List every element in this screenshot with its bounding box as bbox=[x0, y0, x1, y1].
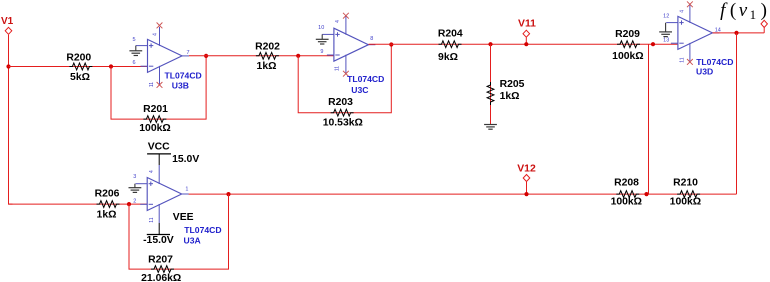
svg-text:6: 6 bbox=[132, 60, 135, 66]
svg-text:R205: R205 bbox=[500, 79, 525, 90]
U3C ground on noninverting input bbox=[316, 34, 329, 44]
wire U3D output feedback down bbox=[736, 33, 738, 194]
wire U3C feedback loop bbox=[298, 45, 391, 113]
VCC value 15.0V bbox=[172, 154, 199, 165]
junction R206/R207 feedback tap bbox=[127, 202, 131, 206]
svg-text:R201: R201 bbox=[143, 104, 168, 115]
wire lower rail from U3A output bbox=[189, 193, 737, 195]
node V11 name bbox=[518, 18, 536, 29]
svg-text:1: 1 bbox=[185, 186, 188, 192]
wire U3C output to U3D inverting input bbox=[369, 43, 678, 45]
node V1 connector diamond bbox=[5, 27, 12, 34]
svg-text:15.0V: 15.0V bbox=[172, 154, 199, 165]
op-amp U3D bbox=[666, 4, 719, 62]
wire V12 stub bbox=[526, 182, 528, 194]
junction U3C output bbox=[389, 42, 393, 46]
U3C pin 10 label bbox=[318, 25, 324, 31]
U3B pin 7 label bbox=[187, 50, 190, 56]
U3B pin 4 label bbox=[153, 33, 159, 36]
U3A pin 1 label bbox=[185, 186, 188, 192]
U3A ref label bbox=[184, 236, 201, 246]
R204 value 9k bbox=[438, 52, 458, 63]
wire up to output connector bbox=[763, 27, 765, 33]
U3B device label TL074CD bbox=[165, 71, 202, 81]
svg-text:TL074CD: TL074CD bbox=[165, 71, 202, 81]
svg-text:4: 4 bbox=[149, 170, 155, 173]
svg-text:U3D: U3D bbox=[696, 66, 713, 76]
R201 value 100k bbox=[139, 123, 170, 134]
U3C pin 11 label bbox=[334, 66, 340, 71]
svg-text:TL074CD: TL074CD bbox=[184, 225, 221, 235]
svg-text:R209: R209 bbox=[615, 29, 640, 40]
svg-text:10.53kΩ: 10.53kΩ bbox=[323, 117, 363, 128]
svg-text:R207: R207 bbox=[148, 255, 173, 266]
U3C device label TL074CD bbox=[347, 74, 384, 84]
R203 label bbox=[328, 97, 353, 108]
R207 label bbox=[148, 255, 173, 266]
U3D pin 12 label bbox=[663, 14, 669, 20]
svg-text:R210: R210 bbox=[673, 178, 698, 189]
U3D top power pin no-connect X bbox=[687, 1, 693, 7]
svg-text:R202: R202 bbox=[255, 42, 280, 53]
junction U3B output bbox=[204, 54, 208, 58]
U3C pin 8 label bbox=[370, 36, 373, 42]
svg-text:100kΩ: 100kΩ bbox=[611, 197, 642, 208]
R204 label bbox=[438, 29, 463, 40]
svg-text:100kΩ: 100kΩ bbox=[670, 197, 701, 208]
wire R205 vertical bbox=[490, 44, 492, 124]
junction V12 bbox=[524, 192, 528, 196]
resistor R200 bbox=[69, 63, 92, 70]
R200 value 5k bbox=[70, 72, 90, 83]
R202 value 1k bbox=[257, 61, 277, 72]
svg-text:13: 13 bbox=[663, 38, 669, 44]
wire U3D output bbox=[713, 32, 765, 34]
R201 label bbox=[143, 104, 168, 115]
node V11 connector diamond bbox=[523, 30, 530, 37]
svg-text:4: 4 bbox=[680, 10, 686, 13]
U3A pin 3 label bbox=[133, 174, 136, 180]
svg-text:10: 10 bbox=[318, 25, 324, 31]
resistor R208 bbox=[616, 191, 639, 198]
svg-text:9: 9 bbox=[320, 49, 323, 55]
svg-text:U3B: U3B bbox=[172, 81, 189, 91]
power VCC bar bbox=[147, 153, 171, 155]
svg-text:R200: R200 bbox=[66, 53, 91, 64]
R200 label bbox=[66, 53, 91, 64]
svg-text:100kΩ: 100kΩ bbox=[139, 123, 170, 134]
wire V1 rail to U3A inverting input bbox=[9, 203, 148, 205]
U3B pin 11 label bbox=[149, 82, 155, 87]
R203 value 10.53k bbox=[323, 117, 363, 128]
resistor R209 bbox=[617, 41, 640, 48]
U3B bottom power pin no-connect X bbox=[157, 82, 163, 88]
svg-text:100kΩ: 100kΩ bbox=[612, 51, 643, 62]
U3B ref label bbox=[172, 81, 189, 91]
svg-text:V1: V1 bbox=[1, 16, 14, 27]
svg-text:3: 3 bbox=[133, 174, 136, 180]
svg-text:1kΩ: 1kΩ bbox=[500, 91, 520, 102]
svg-text:R203: R203 bbox=[328, 97, 353, 108]
VEE label bbox=[173, 212, 194, 223]
svg-text:11: 11 bbox=[334, 66, 340, 71]
U3C pin 4 label bbox=[335, 20, 341, 23]
svg-text:4: 4 bbox=[153, 33, 159, 36]
U3A pin 2 label bbox=[133, 199, 136, 205]
U3D pin 4 label bbox=[680, 10, 686, 13]
U3C pin 9 label bbox=[320, 49, 323, 55]
R209 value 100k bbox=[612, 51, 643, 62]
R210 value 100k bbox=[670, 197, 701, 208]
svg-text:5: 5 bbox=[132, 37, 135, 43]
VCC label bbox=[148, 142, 170, 153]
svg-text:12: 12 bbox=[663, 14, 669, 20]
junction V11 bbox=[524, 42, 528, 46]
node f(v1) label bbox=[720, 0, 767, 22]
node f(v1) connector diamond bbox=[761, 20, 767, 27]
svg-text:U3C: U3C bbox=[351, 85, 368, 95]
junction U3A output/R207 bbox=[226, 192, 230, 196]
junction R204/R205 bbox=[488, 42, 492, 46]
svg-text:V12: V12 bbox=[517, 164, 536, 175]
U3D pin 14 label bbox=[715, 28, 721, 34]
U3D ref label bbox=[696, 66, 713, 76]
wire U3A feedback loop bbox=[129, 194, 229, 269]
junction R209/U3D input bbox=[651, 42, 655, 46]
wire V1 vertical bbox=[9, 35, 13, 204]
wire feedback down to R208/R210 junction bbox=[648, 44, 650, 194]
U3A pin 11 label bbox=[149, 217, 155, 222]
R205 label bbox=[500, 79, 525, 90]
junction V1/R200 bbox=[6, 64, 10, 68]
svg-text:5kΩ: 5kΩ bbox=[70, 72, 90, 83]
svg-text:VEE: VEE bbox=[173, 212, 194, 223]
U3A ground on noninverting input bbox=[129, 184, 142, 193]
svg-text:4: 4 bbox=[335, 20, 341, 23]
svg-text:11: 11 bbox=[149, 82, 155, 87]
R207 value 21.06k bbox=[141, 273, 181, 282]
svg-text:21.06kΩ: 21.06kΩ bbox=[141, 273, 181, 282]
svg-text:8: 8 bbox=[370, 36, 373, 42]
wire U3B feedback loop bbox=[111, 56, 206, 119]
resistor R206 bbox=[97, 201, 120, 208]
U3B top power pin no-connect X bbox=[157, 23, 163, 29]
R206 label bbox=[95, 189, 120, 200]
resistor R202 bbox=[256, 52, 279, 59]
wire VEE to U3A power pin bbox=[158, 223, 160, 235]
svg-text:11: 11 bbox=[679, 57, 685, 62]
R209 label bbox=[615, 29, 640, 40]
svg-text:1kΩ: 1kΩ bbox=[97, 210, 117, 221]
U3D device label TL074CD bbox=[696, 57, 733, 67]
op-amp U3C bbox=[322, 16, 375, 74]
junction R208/R210 bbox=[644, 192, 648, 196]
U3A pin 4 label bbox=[149, 170, 155, 173]
U3B pin 5 label bbox=[132, 37, 135, 43]
R210 label bbox=[673, 178, 698, 189]
resistor R205 bbox=[487, 82, 494, 105]
VEE value -15.0V bbox=[143, 235, 174, 246]
op-amp U3A bbox=[136, 165, 189, 223]
svg-text:R204: R204 bbox=[438, 29, 463, 40]
junction U3D output bbox=[734, 31, 738, 35]
wire V1 to U3B inverting input bbox=[9, 66, 148, 68]
U3D pin 11 label bbox=[679, 57, 685, 62]
resistor R207 bbox=[151, 266, 174, 273]
U3C ref label bbox=[351, 85, 368, 95]
svg-text:-15.0V: -15.0V bbox=[143, 235, 174, 246]
svg-text:V11: V11 bbox=[518, 18, 536, 29]
svg-text:R206: R206 bbox=[95, 189, 120, 200]
resistor R201 bbox=[143, 116, 166, 123]
R206 value 1k bbox=[97, 210, 117, 221]
R208 value 100k bbox=[611, 197, 642, 208]
svg-text:TL074CD: TL074CD bbox=[347, 74, 384, 84]
U3C top power pin no-connect X bbox=[343, 13, 349, 19]
junction R202/U3C feedback tap bbox=[296, 54, 300, 58]
R202 label bbox=[255, 42, 280, 53]
resistor R203 bbox=[331, 109, 354, 116]
svg-text:9kΩ: 9kΩ bbox=[438, 52, 458, 63]
svg-text:R208: R208 bbox=[614, 178, 639, 189]
resistor R204 bbox=[439, 41, 462, 48]
U3B pin 6 label bbox=[132, 60, 135, 66]
power VEE bar bbox=[147, 234, 170, 236]
ground below R205 bbox=[484, 125, 497, 130]
U3D ground on noninverting input bbox=[659, 23, 672, 37]
wire U3B output to U3C inverting input bbox=[189, 55, 334, 57]
svg-text:1kΩ: 1kΩ bbox=[257, 61, 277, 72]
svg-text:VCC: VCC bbox=[148, 142, 170, 153]
svg-text:2: 2 bbox=[133, 199, 136, 205]
wire VCC to U3A power pin bbox=[158, 154, 160, 165]
node V12 name bbox=[517, 164, 536, 175]
node V12 connector diamond bbox=[523, 175, 530, 182]
R208 label bbox=[614, 178, 639, 189]
node V1 name bbox=[1, 16, 14, 27]
resistor R210 bbox=[677, 191, 700, 198]
svg-text:U3A: U3A bbox=[184, 236, 201, 246]
svg-text:11: 11 bbox=[149, 217, 155, 222]
wire V11 stub bbox=[525, 38, 527, 45]
U3D pin 13 label bbox=[663, 38, 669, 44]
junction R200/R201 feedback tap bbox=[109, 64, 113, 68]
U3D bottom power pin no-connect X bbox=[687, 59, 693, 65]
U3B ground on noninverting input bbox=[129, 46, 142, 56]
R205 value 1k bbox=[500, 91, 520, 102]
op-amp U3B bbox=[136, 27, 189, 85]
svg-text:7: 7 bbox=[187, 50, 190, 56]
U3A device label TL074CD bbox=[184, 225, 221, 235]
U3C bottom power pin no-connect X bbox=[343, 71, 349, 77]
svg-text:TL074CD: TL074CD bbox=[696, 57, 733, 67]
